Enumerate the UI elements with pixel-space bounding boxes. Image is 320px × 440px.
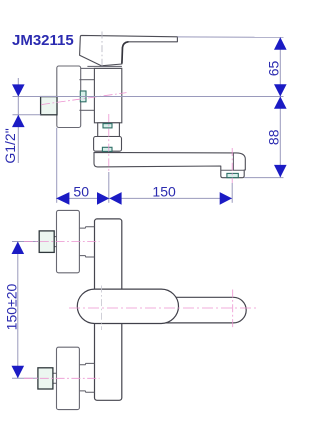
spout vertical centerline magenta xyxy=(108,114,110,172)
lever tip vertical centerline magenta xyxy=(232,290,234,328)
spout base xyxy=(94,137,122,152)
collar below body xyxy=(98,123,120,137)
spout base seal (cyan) xyxy=(102,147,112,151)
arrow down at bottom connection xyxy=(12,366,25,379)
arrow down at pipe top left xyxy=(12,84,25,96)
handle lever outline xyxy=(80,35,178,65)
svg-text:150: 150 xyxy=(152,183,176,199)
aerator seal (cyan) xyxy=(227,173,238,177)
aerator centerline extension gray xyxy=(231,183,233,203)
arrow up at handle top xyxy=(274,37,287,50)
body top ring line upper xyxy=(87,65,122,67)
connector bottom edge xyxy=(79,109,94,111)
aerator vertical centerline magenta xyxy=(231,148,233,183)
svg-text:JM32115: JM32115 xyxy=(12,32,74,49)
wall flange (escutcheon, side view) xyxy=(57,66,81,128)
arrow right at aerator centerline xyxy=(220,192,232,205)
extension line wall plane down xyxy=(56,128,58,203)
right dimension line xyxy=(279,37,281,177)
bottom connection centerline ext gray xyxy=(12,377,38,379)
left G1/2 dimension line xyxy=(17,78,19,163)
top nut xyxy=(39,231,54,253)
extension line aerator bottom xyxy=(244,177,283,179)
spout tip block line xyxy=(232,153,234,170)
inlet axis centerline (magenta diagonal) xyxy=(41,93,127,105)
arrow up at top connection xyxy=(12,242,25,255)
cap centerline xyxy=(101,32,103,67)
G1/2 nipple square xyxy=(41,97,57,115)
top connection centerline magenta xyxy=(24,241,100,243)
extension line pipe bottom xyxy=(13,114,41,116)
body top ring line lower xyxy=(81,67,122,69)
top connector xyxy=(79,227,94,257)
arrow bowtie at spout centerline xyxy=(97,192,122,205)
connector top edge xyxy=(79,79,94,81)
valve big capsule xyxy=(77,289,178,323)
top flange xyxy=(57,210,80,272)
handle elbow dark edge xyxy=(122,42,129,64)
bottom flange xyxy=(57,347,80,409)
arrow left at wall plane xyxy=(56,192,69,205)
collar seal (cyan) xyxy=(103,124,112,128)
top connection centerline ext gray xyxy=(12,241,38,243)
svg-text:88: 88 xyxy=(265,129,281,145)
top pipe stub xyxy=(54,237,56,247)
body (side view) xyxy=(94,68,121,122)
extension line pipe top (long) xyxy=(13,96,284,98)
capsule horizontal centerline magenta xyxy=(69,307,257,309)
svg-text:G1/2": G1/2" xyxy=(2,128,18,163)
svg-text:150±20: 150±20 xyxy=(4,283,20,330)
lever small capsule xyxy=(160,297,246,323)
aerator housing top edge xyxy=(221,169,244,171)
spout centerline extension gray xyxy=(108,172,110,203)
bottom dimension line 50/150 xyxy=(56,197,232,199)
arrow down at aerator bottom xyxy=(274,165,287,178)
bottom nut xyxy=(38,368,53,389)
svg-text:50: 50 xyxy=(73,184,89,200)
extension line handle top xyxy=(178,36,284,38)
left dimension line 150±20 xyxy=(17,242,19,379)
capsule vertical centerline xyxy=(101,286,103,331)
bottom connection centerline magenta xyxy=(24,377,100,379)
bottom pipe stub xyxy=(53,373,56,383)
spout tube with tip and aerator housing xyxy=(94,152,245,177)
body bar xyxy=(95,219,122,400)
bottom connector xyxy=(79,363,94,392)
arrow bowtie at pipe level right xyxy=(274,84,287,108)
inlet seal (cyan) xyxy=(80,91,86,102)
arrow up at pipe bottom left xyxy=(12,115,25,127)
svg-text:65: 65 xyxy=(265,61,281,77)
